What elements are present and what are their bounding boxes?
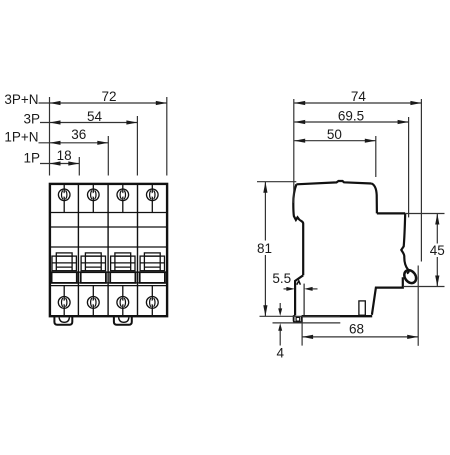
svg-text:1P: 1P [23, 150, 40, 165]
svg-text:81: 81 [257, 241, 272, 256]
svg-text:68: 68 [349, 321, 364, 336]
svg-text:18: 18 [57, 148, 72, 163]
svg-text:36: 36 [71, 127, 86, 142]
svg-text:54: 54 [87, 109, 103, 124]
svg-text:5.5: 5.5 [272, 271, 291, 286]
svg-text:4: 4 [277, 345, 285, 360]
svg-text:3P+N: 3P+N [4, 92, 38, 107]
svg-text:72: 72 [101, 89, 116, 104]
svg-text:50: 50 [327, 127, 342, 142]
svg-text:1P+N: 1P+N [4, 130, 38, 145]
svg-text:45: 45 [430, 243, 445, 258]
svg-text:3P: 3P [23, 112, 40, 127]
svg-text:69.5: 69.5 [338, 108, 364, 123]
svg-text:74: 74 [351, 89, 367, 104]
